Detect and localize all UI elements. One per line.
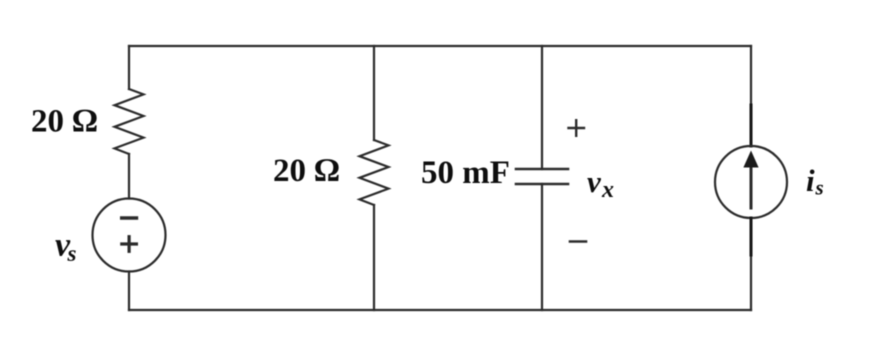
wire resistor to source: [128, 154, 130, 199]
resistor R2 20 ohm (middle): [360, 140, 389, 205]
wire middle branch bottom lead: [373, 205, 375, 310]
svg-text:20 Ω: 20 Ω: [31, 104, 98, 140]
current source arrow head: [743, 151, 758, 168]
voltage source vs circle: [93, 199, 166, 272]
svg-text:50 mF: 50 mF: [421, 155, 510, 191]
current source is circle: [715, 146, 787, 218]
resistor R1 20 ohm (left): [115, 89, 144, 154]
wire capacitor branch top lead: [541, 46, 543, 169]
plus sign of vx polarity: [569, 120, 585, 136]
wire top rail: [129, 45, 751, 47]
wire right branch bottom lead: [750, 218, 752, 310]
wire capacitor branch bottom lead: [541, 184, 543, 310]
voltage source minus sign: [122, 216, 137, 220]
wire middle branch top lead: [373, 46, 375, 140]
capacitor C1 50 mF plates: [516, 169, 568, 184]
svg-text:20 Ω: 20 Ω: [273, 153, 340, 189]
wire left branch top lead: [128, 46, 130, 89]
minus sign of vx polarity: [570, 240, 586, 243]
wire heavy segment above current source: [750, 105, 753, 146]
voltage source plus sign: [122, 237, 137, 252]
wire right branch top lead: [750, 46, 752, 146]
svg-text:i: i: [806, 163, 815, 198]
current source arrow shaft: [750, 163, 753, 208]
wire source to bottom rail: [128, 272, 130, 311]
svg-text:x: x: [601, 177, 614, 203]
wire bottom rail: [129, 309, 751, 311]
wire heavy segment below current source: [750, 218, 753, 255]
svg-text:v: v: [587, 164, 602, 199]
svg-text:s: s: [67, 241, 77, 266]
svg-text:s: s: [815, 176, 824, 200]
